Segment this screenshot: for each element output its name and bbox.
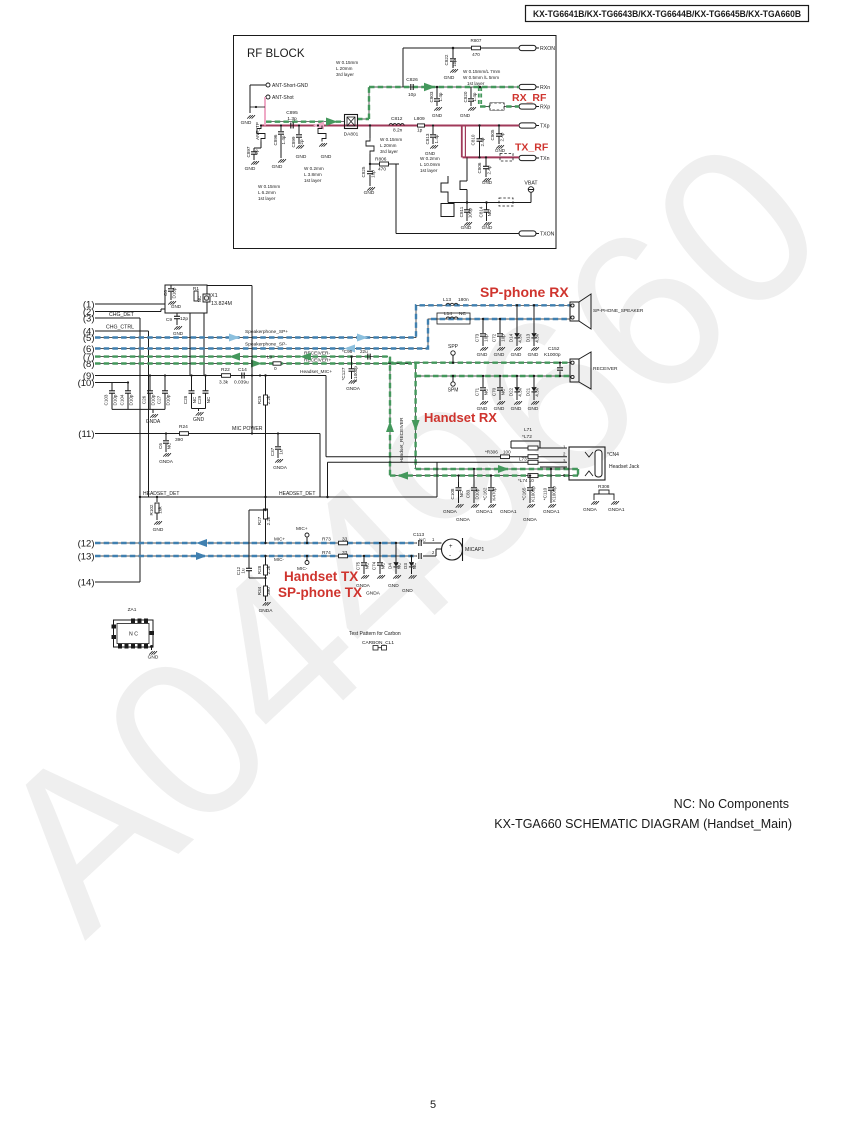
- svg-text:L 6.2mm: L 6.2mm: [258, 190, 276, 195]
- svg-text:ANT_TP: ANT_TP: [255, 122, 260, 140]
- svg-text:R102: R102: [149, 504, 154, 515]
- svg-text:GND: GND: [245, 166, 256, 172]
- svg-text:*C110: *C110: [543, 487, 548, 500]
- svg-text:4.3V: 4.3V: [518, 386, 523, 396]
- svg-text:L73: L73: [519, 457, 527, 462]
- svg-text:C8: C8: [163, 290, 168, 296]
- svg-text:MIC POWER: MIC POWER: [232, 426, 263, 432]
- svg-text:Test Pattern for Carbon: Test Pattern for Carbon: [349, 631, 401, 637]
- svg-text:3rd layer: 3rd layer: [336, 72, 354, 77]
- svg-text:GNDA1: GNDA1: [476, 509, 493, 515]
- svg-text:C825: C825: [361, 166, 366, 177]
- svg-text:GNDA: GNDA: [273, 465, 288, 471]
- svg-text:KX-TGA660 SCHEMATIC DIAGRAM (H: KX-TGA660 SCHEMATIC DIAGRAM (Handset_Mai…: [494, 817, 792, 831]
- svg-text:NC: NC: [197, 295, 202, 302]
- svg-text:GND: GND: [494, 352, 505, 358]
- svg-text:GND: GND: [173, 331, 184, 336]
- svg-text:W 0.5mm /L 5mm: W 0.5mm /L 5mm: [463, 75, 499, 80]
- svg-text:NC: NC: [501, 388, 506, 395]
- svg-text:MIC+: MIC+: [296, 526, 308, 532]
- svg-text:1.4p: 1.4p: [281, 135, 286, 144]
- svg-text:W 0.2mm: W 0.2mm: [304, 166, 324, 171]
- svg-text:W 0.2mm: W 0.2mm: [420, 156, 440, 161]
- svg-text:C70: C70: [492, 387, 497, 396]
- svg-text:-: -: [449, 553, 451, 559]
- svg-text:(3): (3): [83, 313, 95, 324]
- svg-text:C71: C71: [475, 387, 480, 396]
- svg-text:RXp: RXp: [540, 105, 550, 111]
- svg-text:C820: C820: [463, 91, 468, 102]
- svg-text:D13: D13: [526, 333, 531, 342]
- svg-text:GNDA: GNDA: [583, 507, 598, 513]
- svg-text:C26: C26: [142, 395, 147, 404]
- svg-text:2.2k: 2.2k: [266, 565, 271, 574]
- svg-text:NC: NC: [365, 562, 370, 569]
- svg-text:C74: C74: [372, 561, 377, 570]
- svg-text:*C96: *C96: [342, 349, 353, 354]
- svg-text:GND: GND: [482, 225, 493, 231]
- svg-text:5: 5: [430, 1099, 436, 1111]
- svg-text:L9: L9: [267, 355, 273, 361]
- svg-text:Headset Jack: Headset Jack: [609, 464, 640, 470]
- svg-text:GND: GND: [296, 154, 307, 160]
- svg-text:K1000p: K1000p: [531, 486, 536, 502]
- svg-text:SP-phone RX: SP-phone RX: [480, 284, 569, 300]
- svg-text:D10p: D10p: [172, 287, 177, 298]
- svg-text:470: 470: [378, 167, 386, 173]
- svg-text:C152: C152: [548, 346, 560, 352]
- svg-text:C806: C806: [477, 162, 482, 173]
- svg-text:*L74 10: *L74 10: [518, 478, 534, 483]
- svg-text:D10p: D10p: [113, 394, 118, 405]
- svg-text:GND: GND: [388, 583, 399, 589]
- svg-text:C805: C805: [490, 129, 495, 140]
- svg-text:L 20mm: L 20mm: [336, 66, 353, 71]
- svg-text:D3: D3: [403, 563, 408, 569]
- svg-text:R27: R27: [257, 516, 262, 525]
- svg-text:2.4p: 2.4p: [487, 165, 492, 174]
- svg-text:MIC+: MIC+: [274, 537, 285, 542]
- svg-text:D10p: D10p: [475, 488, 480, 499]
- svg-text:C812: C812: [391, 116, 403, 122]
- svg-text:RXn: RXn: [540, 85, 550, 91]
- svg-text:K1000p: K1000p: [552, 486, 557, 502]
- svg-text:+: +: [449, 544, 453, 550]
- svg-text:C14: C14: [238, 367, 247, 373]
- svg-text:(5): (5): [83, 333, 95, 344]
- svg-text:NC: No Components: NC: No Components: [674, 797, 789, 811]
- svg-text:C104: C104: [120, 394, 125, 405]
- svg-text:CHG_DET: CHG_DET: [109, 312, 135, 318]
- svg-text:470: 470: [472, 52, 480, 57]
- svg-text:D14: D14: [509, 333, 514, 342]
- svg-text:10k: 10k: [158, 506, 163, 514]
- svg-text:D10p: D10p: [151, 394, 156, 405]
- svg-text:1st layer: 1st layer: [467, 81, 485, 86]
- svg-text:(10): (10): [78, 378, 95, 389]
- svg-text:L 20mm: L 20mm: [380, 143, 397, 148]
- svg-text:GND: GND: [272, 164, 283, 170]
- svg-text:C896: C896: [273, 134, 278, 145]
- svg-text:C37: C37: [270, 447, 275, 456]
- svg-text:GND: GND: [432, 113, 443, 118]
- svg-text:C27: C27: [157, 395, 162, 404]
- svg-text:N C: N C: [129, 632, 138, 638]
- svg-text:(12): (12): [78, 538, 95, 549]
- svg-text:NC: NC: [397, 562, 402, 569]
- svg-text:4.3V: 4.3V: [535, 386, 540, 396]
- svg-text:(13): (13): [78, 551, 95, 562]
- svg-text:KX-TG6641B/KX-TG6643B/KX-TG664: KX-TG6641B/KX-TG6643B/KX-TG6644B/KX-TG66…: [533, 8, 801, 19]
- svg-text:C29: C29: [197, 395, 202, 404]
- svg-text:L 10.0mm: L 10.0mm: [420, 162, 440, 167]
- svg-text:2p: 2p: [299, 139, 304, 145]
- svg-text:10p: 10p: [484, 334, 489, 342]
- svg-text:NC: NC: [459, 490, 464, 497]
- svg-text:C895: C895: [286, 110, 298, 116]
- svg-text:10p: 10p: [501, 334, 506, 342]
- svg-text:NC: NC: [484, 388, 489, 395]
- svg-text:1st layer: 1st layer: [304, 178, 322, 183]
- svg-text:L71: L71: [524, 427, 532, 433]
- svg-text:1.4p: 1.4p: [438, 92, 443, 101]
- svg-text:1.3p: 1.3p: [287, 116, 297, 122]
- svg-text:100p: 100p: [468, 207, 473, 218]
- svg-text:NC: NC: [167, 442, 172, 449]
- svg-text:2.4p: 2.4p: [480, 137, 485, 146]
- svg-text:R22: R22: [221, 367, 230, 373]
- svg-text:GND: GND: [511, 352, 522, 358]
- svg-text:GND: GND: [528, 406, 539, 412]
- svg-text:1u: 1u: [279, 449, 284, 455]
- svg-text:C73: C73: [475, 333, 480, 342]
- svg-text:10p: 10p: [408, 92, 416, 98]
- svg-text:R807: R807: [471, 38, 482, 43]
- svg-text:RF BLOCK: RF BLOCK: [247, 48, 305, 60]
- svg-text:*C165: *C165: [522, 487, 527, 500]
- svg-text:GND: GND: [148, 655, 159, 661]
- svg-text:33: 33: [342, 550, 348, 556]
- svg-text:L13: L13: [443, 297, 451, 303]
- svg-text:Headset_MIC+: Headset_MIC+: [300, 369, 332, 375]
- svg-text:GNDA: GNDA: [443, 509, 458, 515]
- svg-text:10p: 10p: [371, 170, 376, 178]
- svg-text:CARBON_CL1: CARBON_CL1: [362, 640, 394, 646]
- svg-text:C83: C83: [466, 489, 471, 498]
- svg-text:GNDA: GNDA: [259, 608, 274, 614]
- svg-text:VBAT: VBAT: [524, 181, 538, 187]
- svg-text:C899: C899: [291, 136, 296, 147]
- svg-text:GND: GND: [511, 406, 522, 412]
- svg-text:GND: GND: [241, 120, 252, 126]
- svg-text:180n: 180n: [458, 297, 469, 303]
- svg-text:4.3V: 4.3V: [535, 332, 540, 342]
- svg-text:100: 100: [503, 450, 511, 455]
- svg-text:ANT-Short-GND: ANT-Short-GND: [272, 83, 309, 89]
- svg-text:R28: R28: [257, 565, 262, 574]
- svg-text:2.2k: 2.2k: [266, 516, 271, 525]
- svg-text:Speakerphone_SP+: Speakerphone_SP+: [245, 329, 288, 335]
- svg-text:33: 33: [342, 537, 348, 543]
- svg-text:L809: L809: [414, 116, 425, 122]
- svg-text:GNDA: GNDA: [456, 517, 471, 523]
- svg-text:(11): (11): [78, 429, 94, 440]
- svg-text:1u: 1u: [241, 568, 246, 574]
- svg-text:R74: R74: [322, 550, 331, 556]
- svg-text:4.3V: 4.3V: [518, 332, 523, 342]
- svg-text:NC: NC: [459, 311, 466, 317]
- svg-text:GNDA1: GNDA1: [543, 509, 560, 515]
- svg-text:ZA1: ZA1: [128, 607, 137, 613]
- svg-text:C803: C803: [429, 91, 434, 102]
- svg-text:GNDA: GNDA: [523, 517, 538, 523]
- svg-text:NC: NC: [487, 209, 492, 216]
- svg-text:Handset RX: Handset RX: [424, 410, 497, 425]
- svg-text:GND: GND: [364, 190, 375, 196]
- svg-text:GND: GND: [444, 75, 455, 81]
- svg-text:8.2n: 8.2n: [393, 128, 403, 134]
- svg-text:GND: GND: [153, 527, 164, 533]
- svg-text:SP-phone TX: SP-phone TX: [278, 585, 362, 600]
- svg-text:1st layer: 1st layer: [258, 196, 276, 201]
- svg-text:(14): (14): [78, 577, 95, 588]
- svg-text:22u: 22u: [360, 349, 368, 354]
- svg-text:R1: R1: [193, 286, 199, 292]
- svg-text:K470p: K470p: [492, 487, 497, 501]
- svg-text:TXp: TXp: [540, 124, 550, 130]
- svg-text:W 0.15mm/L 7mm: W 0.15mm/L 7mm: [463, 69, 501, 74]
- svg-text:X1: X1: [211, 293, 218, 299]
- svg-text:C897: C897: [246, 146, 251, 157]
- svg-text:GND: GND: [528, 352, 539, 358]
- svg-text:W 0.15mm: W 0.15mm: [336, 60, 358, 65]
- svg-text:L14: L14: [444, 311, 452, 317]
- svg-text:*L72: *L72: [522, 434, 532, 440]
- svg-text:R24: R24: [179, 424, 188, 430]
- svg-text:390: 390: [266, 587, 271, 595]
- svg-text:C814: C814: [479, 206, 484, 217]
- svg-text:D10p: D10p: [166, 394, 171, 405]
- svg-text:2.4p: 2.4p: [500, 132, 505, 141]
- svg-text:SPM: SPM: [448, 388, 459, 394]
- svg-text:GND: GND: [477, 352, 488, 358]
- svg-text:C826: C826: [406, 77, 418, 83]
- svg-text:ANT-Shot: ANT-Shot: [272, 95, 294, 101]
- svg-text:GNDA: GNDA: [346, 386, 361, 392]
- svg-text:390: 390: [175, 437, 183, 443]
- svg-text:GND: GND: [321, 154, 332, 160]
- svg-text:D10p: D10p: [129, 394, 134, 405]
- svg-text:GND: GND: [402, 588, 413, 594]
- svg-text:1.4p: 1.4p: [472, 92, 477, 101]
- svg-text:W 0.15mm: W 0.15mm: [258, 184, 280, 189]
- svg-text:*C127: *C127: [341, 367, 346, 380]
- svg-text:*CN4: *CN4: [607, 452, 619, 458]
- svg-text:RXON: RXON: [540, 46, 555, 52]
- svg-text:C9: C9: [166, 317, 172, 323]
- svg-text:C822: C822: [444, 54, 449, 65]
- svg-text:K1000p: K1000p: [353, 366, 358, 382]
- svg-text:GNDA1: GNDA1: [608, 507, 625, 513]
- svg-text:MICAP1: MICAP1: [465, 547, 484, 553]
- svg-text:R308: R308: [598, 484, 610, 490]
- svg-text:NC: NC: [381, 562, 386, 569]
- svg-text:TXON: TXON: [540, 232, 555, 238]
- svg-text:(8): (8): [83, 359, 95, 370]
- svg-text:RECEIVER: RECEIVER: [593, 366, 618, 372]
- svg-text:NC: NC: [412, 562, 417, 569]
- svg-text:*R306: *R306: [485, 450, 498, 455]
- svg-text:1p: 1p: [417, 128, 423, 134]
- svg-text:Handset_RECEIVER: Handset_RECEIVER: [399, 417, 405, 463]
- svg-text:GND: GND: [193, 417, 205, 423]
- svg-text:HEADSET_DET: HEADSET_DET: [279, 491, 315, 497]
- svg-text:TX_RF: TX_RF: [515, 142, 549, 154]
- svg-text:DA801: DA801: [344, 132, 359, 138]
- svg-text:NC: NC: [206, 396, 211, 403]
- svg-text:3rd layer: 3rd layer: [380, 149, 398, 154]
- svg-text:R25: R25: [257, 395, 262, 404]
- svg-text:RX_RF: RX_RF: [512, 92, 547, 104]
- svg-text:R73: R73: [322, 537, 331, 543]
- svg-text:Handset TX: Handset TX: [284, 569, 358, 584]
- svg-text:10p: 10p: [452, 59, 457, 67]
- svg-text:SP-PHONE_SPEAKER: SP-PHONE_SPEAKER: [593, 308, 644, 314]
- svg-text:13.824M: 13.824M: [211, 301, 232, 307]
- svg-text:C113: C113: [413, 532, 424, 538]
- svg-text:R34: R34: [257, 586, 262, 595]
- svg-text:GND: GND: [460, 113, 471, 118]
- svg-text:TXn: TXn: [540, 156, 550, 162]
- svg-text:K1000p: K1000p: [544, 352, 561, 358]
- svg-text:C108: C108: [450, 488, 455, 499]
- svg-text:C813: C813: [425, 133, 430, 144]
- svg-text:W 0.15mm: W 0.15mm: [380, 137, 402, 142]
- svg-text:D4: D4: [388, 563, 393, 569]
- svg-text:R806: R806: [375, 157, 387, 163]
- svg-text:SPP: SPP: [448, 344, 459, 350]
- svg-text:1st layer: 1st layer: [420, 168, 438, 173]
- svg-text:2.2k: 2.2k: [266, 395, 271, 404]
- svg-text:D22: D22: [509, 387, 514, 396]
- svg-text:3.3k: 3.3k: [219, 380, 229, 386]
- svg-text:GND: GND: [495, 148, 506, 153]
- svg-text:C28: C28: [183, 395, 188, 404]
- svg-text:C103: C103: [104, 394, 109, 405]
- svg-text:GNDA: GNDA: [146, 419, 161, 425]
- svg-text:GND: GND: [482, 180, 493, 185]
- svg-text:*C162: *C162: [483, 487, 488, 500]
- svg-text:C811: C811: [459, 206, 464, 217]
- svg-text:C6: C6: [158, 443, 163, 449]
- svg-text:GNDA: GNDA: [159, 459, 174, 465]
- svg-text:MIC-: MIC-: [274, 557, 284, 562]
- svg-text:C810: C810: [471, 134, 476, 145]
- svg-text:0: 0: [274, 366, 277, 372]
- svg-text:0.039u: 0.039u: [234, 380, 249, 386]
- svg-text:GND: GND: [461, 225, 472, 231]
- svg-text:Speakerphone_SP-: Speakerphone_SP-: [245, 342, 287, 348]
- svg-text:HEADSET_DET: HEADSET_DET: [143, 491, 179, 497]
- svg-text:2p: 2p: [254, 149, 259, 155]
- svg-text:C72: C72: [492, 333, 497, 342]
- svg-text:CHG_CTRL: CHG_CTRL: [106, 325, 134, 331]
- svg-text:12p: 12p: [180, 316, 188, 322]
- svg-text:1.4p: 1.4p: [434, 134, 439, 143]
- svg-text:L 3.8mm: L 3.8mm: [304, 172, 322, 177]
- svg-text:GNDA1: GNDA1: [500, 509, 517, 515]
- svg-text:GND: GND: [171, 304, 182, 309]
- svg-text:GNDA: GNDA: [366, 591, 381, 597]
- svg-text:D21: D21: [526, 387, 531, 396]
